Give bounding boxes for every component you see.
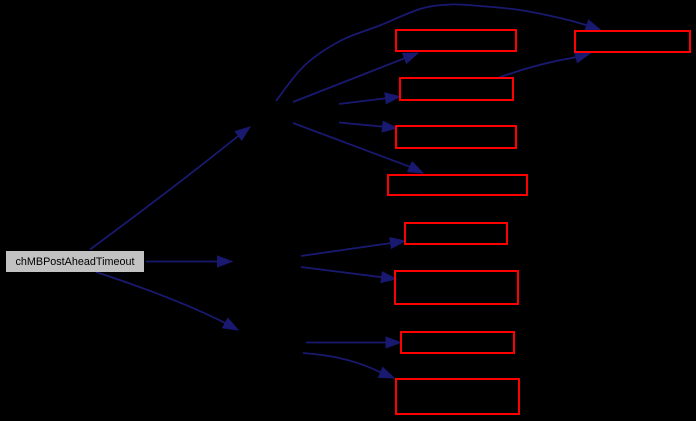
edge E13 lower hub to box B8	[303, 353, 394, 378]
node chMBPostAheadTimeout	[6, 251, 144, 272]
box B6	[395, 271, 518, 304]
edge E4 big arc from upper hub to box B9	[276, 4, 601, 101]
box B4	[388, 175, 527, 195]
box B8	[396, 379, 519, 414]
box B7	[401, 332, 514, 353]
edge E1 main node to upper hub	[90, 127, 250, 250]
edge E5 upper hub to box B1	[293, 53, 418, 102]
box B5	[405, 223, 507, 244]
box B1	[396, 30, 516, 51]
edge E12 lower hub to box B7	[306, 337, 401, 348]
edge E7 upper hub to box B3	[339, 121, 397, 132]
edge E2 main node to middle hub	[146, 256, 232, 267]
box B2	[400, 78, 513, 100]
edge E9 box B2 to box B9	[499, 52, 590, 78]
edge E6 upper hub to box B2	[339, 93, 400, 104]
box B3	[396, 126, 516, 148]
box B9	[575, 31, 690, 52]
edge E11 middle hub to box B6	[301, 267, 396, 283]
edge E3 main node to lower hub	[96, 272, 238, 330]
edge E8 upper hub to box B4	[293, 123, 423, 173]
edge E10 middle hub to box B5	[301, 238, 405, 256]
svg-text:chMBPostAheadTimeout: chMBPostAheadTimeout	[15, 256, 134, 268]
